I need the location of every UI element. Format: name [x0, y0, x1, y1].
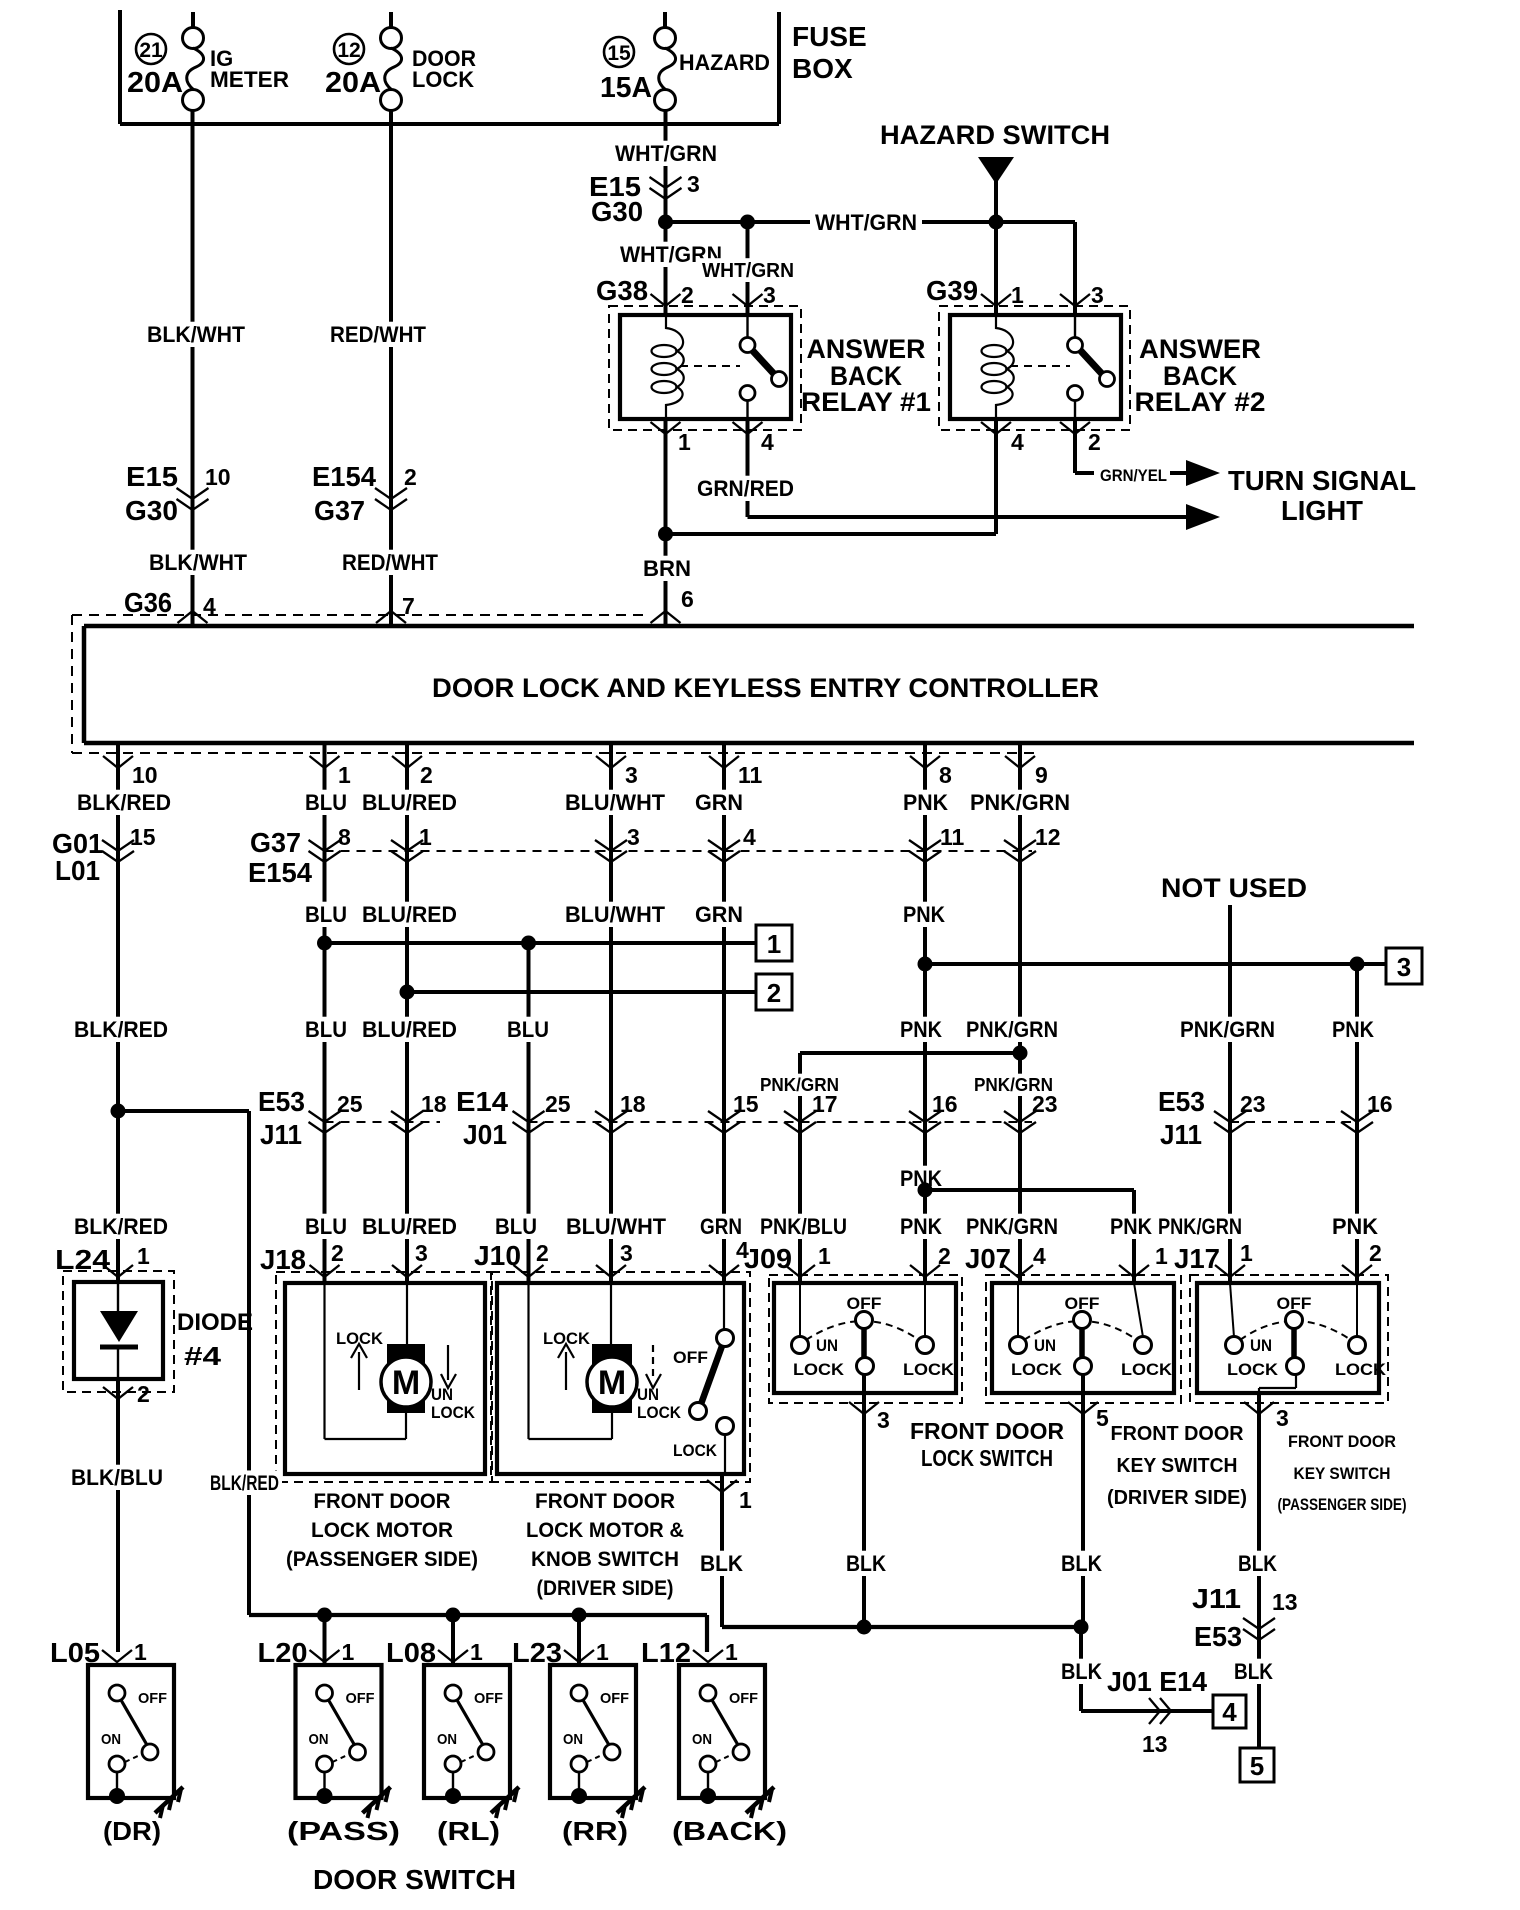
wire bus to L23	[577, 1615, 581, 1665]
svg-text:2: 2	[536, 1240, 549, 1266]
svg-text:DIODE: DIODE	[177, 1309, 253, 1336]
arrow to turn signal light 2	[1186, 504, 1220, 530]
chevron L24 pin 1	[103, 1265, 133, 1277]
svg-text:1: 1	[470, 1639, 483, 1665]
svg-text:BLK: BLK	[1061, 1551, 1102, 1576]
label GRN pin 11	[692, 790, 746, 815]
svg-text:LOCK: LOCK	[412, 67, 474, 92]
wire fuse15 stub above	[663, 12, 667, 27]
wire BLK/BLU to L05	[116, 1379, 120, 1652]
label BRN	[640, 556, 694, 581]
svg-text:20A: 20A	[127, 67, 183, 99]
wire hazard to relay2 pin1	[994, 222, 998, 315]
connector G37/E154 symbol pin 3	[595, 840, 627, 851]
svg-text:G39: G39	[926, 275, 978, 306]
wire BLK/RED branch down	[247, 1111, 251, 1615]
J07 wire pin1 in	[1134, 1283, 1143, 1337]
chevron relay1 pin 1	[651, 422, 681, 434]
offpage box 5	[1240, 1748, 1274, 1782]
svg-text:J11: J11	[260, 1119, 302, 1150]
node BRN junction	[658, 527, 673, 542]
svg-text:1: 1	[1011, 282, 1024, 308]
svg-text:25: 25	[337, 1091, 363, 1117]
connector dashed link G37 row	[325, 850, 1033, 852]
wire GRN/YEL stub to arrow	[1170, 471, 1186, 475]
diode L24 box	[74, 1282, 163, 1379]
svg-text:LIGHT: LIGHT	[1281, 495, 1363, 526]
node L20 tap	[317, 1608, 332, 1623]
label WHT/GRN below fuse	[612, 141, 720, 166]
chevron G36 pin 4	[178, 611, 208, 623]
svg-text:1: 1	[338, 762, 351, 788]
ground bus right	[722, 1625, 1081, 1629]
wire fuse21 stub above	[191, 12, 195, 28]
relay G38 common contact	[740, 338, 755, 353]
svg-text:3: 3	[1397, 952, 1411, 982]
fuse 15 circled number	[604, 37, 634, 67]
svg-text:8: 8	[338, 824, 351, 850]
svg-text:FRONT DOOR: FRONT DOOR	[1288, 1432, 1396, 1451]
node BLU/RED tap	[400, 985, 415, 1000]
label WHT/GRN relay1 pin3	[699, 258, 797, 282]
svg-text:J11: J11	[1192, 1583, 1241, 1614]
wire RED/WHT vertical	[389, 111, 393, 626]
svg-text:2: 2	[404, 464, 417, 490]
svg-text:17: 17	[812, 1091, 838, 1117]
svg-text:FUSE: FUSE	[792, 21, 867, 52]
wire WHT/GRN horizontal to hazard switch	[666, 220, 997, 224]
svg-text:3: 3	[1276, 1405, 1289, 1431]
diode L24 dashed outline	[63, 1271, 174, 1392]
label PNK above junction	[897, 1166, 945, 1191]
connector J11/E53 symbol	[1243, 1618, 1275, 1629]
svg-text:J01 E14: J01 E14	[1107, 1666, 1207, 1697]
ground bus left	[249, 1613, 707, 1617]
relay G38 lower contact	[740, 386, 755, 401]
svg-text:BLK/RED: BLK/RED	[74, 1017, 168, 1042]
label RED/WHT upper	[327, 322, 429, 347]
svg-text:OFF: OFF	[673, 1348, 708, 1367]
svg-text:M: M	[392, 1364, 420, 1402]
connector E15/G30 symbol pin 10	[177, 488, 209, 499]
node PNK tap	[918, 957, 933, 972]
svg-text:DOOR LOCK AND KEYLESS ENTRY CO: DOOR LOCK AND KEYLESS ENTRY CONTROLLER	[432, 673, 1099, 703]
relay G39 contact wires	[1074, 315, 1076, 337]
node PNK junction2	[918, 1183, 933, 1198]
svg-text:21: 21	[139, 39, 163, 62]
door switch L23	[550, 1665, 636, 1798]
node relay1 pin3 tap	[740, 215, 755, 230]
J10 exit wire	[720, 1474, 724, 1627]
svg-text:1: 1	[419, 824, 432, 850]
connector dashed link E53/J11	[325, 1121, 441, 1123]
wire PNK/GRN pin9 down	[1018, 743, 1022, 1283]
svg-text:2: 2	[767, 978, 781, 1008]
motor J18 box	[285, 1283, 485, 1474]
offpage box 3	[1386, 948, 1422, 984]
svg-text:J18: J18	[260, 1244, 306, 1275]
svg-text:BLK/WHT: BLK/WHT	[147, 322, 246, 347]
svg-text:E53: E53	[258, 1086, 305, 1117]
svg-text:J07: J07	[965, 1243, 1011, 1274]
chevron relay1 pin 4	[733, 422, 763, 434]
wire relay1 pin1 down	[664, 419, 668, 534]
svg-text:(PASS): (PASS)	[287, 1816, 400, 1846]
svg-text:2: 2	[331, 1240, 344, 1266]
svg-text:WHT/GRN: WHT/GRN	[815, 210, 917, 235]
connector G37/E154 symbol pin 12	[1004, 840, 1036, 851]
wire junction line to box1	[325, 941, 757, 945]
svg-text:BLU: BLU	[507, 1017, 549, 1042]
svg-text:5: 5	[1096, 1405, 1109, 1431]
wire not used vertical	[1228, 905, 1232, 1283]
svg-text:15: 15	[607, 42, 631, 65]
fuse 12 circled number	[334, 34, 364, 64]
svg-text:ON: ON	[101, 1731, 121, 1748]
label RED/WHT lower	[339, 550, 441, 575]
svg-text:BLU/WHT: BLU/WHT	[566, 1214, 667, 1239]
switch J17 dashed outline	[1190, 1275, 1388, 1403]
node hazard switch junction	[989, 215, 1004, 230]
chevron J09 pin 3	[849, 1402, 879, 1414]
svg-text:2: 2	[1088, 429, 1101, 455]
J10 knob top contact	[717, 1330, 734, 1347]
label BLK/RED pin 10	[74, 790, 174, 815]
label BLK J10	[697, 1551, 746, 1576]
svg-text:3: 3	[763, 282, 776, 308]
svg-text:18: 18	[620, 1091, 646, 1117]
svg-text:1: 1	[739, 1487, 752, 1513]
svg-text:E53: E53	[1158, 1086, 1205, 1117]
connector G37/E154 symbol pin 11	[909, 840, 941, 851]
svg-text:LOCK MOTOR &: LOCK MOTOR &	[526, 1519, 684, 1542]
connector E53/J11 right pin 23	[1214, 1111, 1246, 1122]
connector G37/E154 symbol pin 4	[708, 840, 740, 851]
svg-text:BLU/WHT: BLU/WHT	[565, 902, 666, 927]
wire hazard to relay2 pin3	[996, 220, 1075, 224]
svg-text:ANSWER: ANSWER	[1139, 334, 1261, 364]
svg-text:BLU: BLU	[305, 902, 347, 927]
chevron J10 pin 2	[514, 1265, 544, 1277]
motor J10 box	[497, 1283, 744, 1474]
fuse F15 symbol	[655, 28, 676, 49]
wire PNK junction to J09 pin2	[923, 1190, 927, 1283]
svg-text:OFF: OFF	[474, 1690, 503, 1707]
chevron J07 pin 5	[1068, 1402, 1098, 1414]
wire relay1 pin3 drop	[746, 222, 750, 315]
label BLK J09	[843, 1551, 889, 1576]
svg-text:6: 6	[681, 586, 694, 612]
svg-text:BLU/RED: BLU/RED	[362, 1214, 457, 1239]
svg-text:OFF: OFF	[138, 1690, 167, 1707]
diode L24 symbol	[100, 1311, 138, 1342]
wire PNK pin8 down	[923, 743, 927, 1190]
label BLK/WHT upper	[144, 322, 248, 347]
wire junction line to box2	[407, 990, 756, 994]
diode L24 wire in	[117, 1283, 119, 1311]
svg-text:16: 16	[932, 1091, 958, 1117]
svg-text:NOT USED: NOT USED	[1161, 873, 1307, 903]
wire PNK branch down to J07	[1132, 1190, 1136, 1283]
controller pin 1 exit chevron	[310, 756, 340, 768]
connector J01/E14 symbol	[1149, 1698, 1160, 1724]
J10 motor	[592, 1344, 632, 1413]
controller pin 2 exit chevron	[392, 756, 422, 768]
svg-text:G37: G37	[250, 827, 301, 858]
door switch L05	[88, 1665, 174, 1798]
svg-text:LOCK: LOCK	[903, 1360, 955, 1379]
label BLK/BLU	[68, 1465, 166, 1490]
wire BLK to box4	[1081, 1709, 1213, 1713]
svg-text:G38: G38	[596, 275, 648, 306]
svg-text:1: 1	[342, 1639, 355, 1665]
connector E14/J01 pin 17	[784, 1111, 816, 1122]
wire BLK J07 branch down	[1079, 1627, 1083, 1711]
svg-text:1: 1	[767, 929, 781, 959]
chevron J18 pin 2	[310, 1265, 340, 1277]
wire BLK/RED pin10 to L24	[116, 743, 120, 1283]
wire PNK/GRN branch down	[798, 1053, 802, 1283]
svg-text:23: 23	[1032, 1091, 1058, 1117]
svg-text:BLU: BLU	[305, 790, 347, 815]
svg-text:UN: UN	[1250, 1336, 1272, 1355]
svg-text:BLK/RED: BLK/RED	[74, 1214, 168, 1239]
svg-text:PNK: PNK	[900, 1017, 942, 1042]
svg-text:RELAY #2: RELAY #2	[1135, 387, 1266, 417]
svg-text:BLK/BLU: BLK/BLU	[71, 1465, 163, 1490]
svg-text:2: 2	[137, 1381, 150, 1407]
door switch L20	[296, 1665, 382, 1798]
svg-text:J17: J17	[1174, 1243, 1220, 1274]
label PNK/GRN row3	[963, 1017, 1061, 1042]
controller box	[84, 624, 1414, 629]
chevron relay2 pin 1	[981, 294, 1011, 306]
J07 exit wire	[1081, 1374, 1085, 1627]
node J07 exit tap	[1074, 1620, 1089, 1635]
J10 wire pin3 to motor	[610, 1283, 612, 1344]
svg-text:1: 1	[1240, 1240, 1253, 1266]
label PNK/GRN row4 right	[1155, 1214, 1245, 1239]
fuse F21 symbol	[183, 28, 204, 49]
switch J17 box	[1197, 1283, 1379, 1393]
svg-text:LOCK: LOCK	[1335, 1360, 1387, 1379]
label BLK above box5	[1231, 1659, 1276, 1684]
J17 wire pin2 in	[1356, 1283, 1358, 1337]
relay G38 switch arm	[752, 350, 775, 375]
svg-text:3: 3	[877, 1407, 890, 1433]
wire PNK/GRN branch left	[800, 1051, 1020, 1055]
svg-text:BLU: BLU	[305, 1017, 347, 1042]
svg-text:20A: 20A	[325, 67, 381, 99]
svg-text:ON: ON	[563, 1731, 583, 1748]
J07 wire pin4 in	[1017, 1283, 1019, 1337]
svg-text:4: 4	[761, 429, 774, 455]
svg-text:1: 1	[134, 1639, 147, 1665]
svg-text:UN: UN	[816, 1336, 838, 1355]
wire junction line to box3	[925, 962, 1386, 966]
hazard switch symbol	[978, 157, 1014, 184]
label BLU/WHT row4	[563, 1214, 669, 1239]
svg-text:ON: ON	[437, 1731, 457, 1748]
svg-text:BLK: BLK	[1234, 1659, 1273, 1684]
controller dashed harness top	[72, 614, 648, 616]
wire BLU/RED pin2 down	[405, 743, 409, 1283]
svg-text:UN: UN	[431, 1385, 453, 1404]
svg-text:PNK/GRN: PNK/GRN	[1158, 1214, 1242, 1239]
J17 exit jog	[1295, 1374, 1297, 1388]
label BLK/RED branch	[207, 1470, 282, 1495]
arrow to turn signal light 1	[1186, 460, 1220, 486]
chevron J18 pin 3	[392, 1265, 422, 1277]
J18 wire pin2 to motor	[323, 1283, 325, 1439]
svg-text:KEY SWITCH: KEY SWITCH	[1117, 1455, 1238, 1477]
svg-text:BLK: BLK	[1061, 1659, 1102, 1684]
svg-text:LOCK: LOCK	[1011, 1360, 1063, 1379]
svg-text:LOCK: LOCK	[793, 1360, 845, 1379]
relay G39 arm end contact	[1100, 372, 1115, 387]
svg-text:12: 12	[337, 39, 360, 62]
motor J18 dashed outline	[276, 1272, 492, 1482]
connector E14/J01 pin 16	[909, 1111, 941, 1122]
label BLU/WHT row2	[562, 902, 668, 927]
wire relay2 pin4 down	[994, 419, 998, 534]
svg-text:PNK: PNK	[1110, 1214, 1152, 1239]
relay G39 common contact	[1068, 338, 1083, 353]
svg-text:3: 3	[1091, 282, 1104, 308]
label BLU row2	[302, 902, 350, 927]
chevron L12 pin 1	[693, 1650, 723, 1662]
wire BLK/WHT vertical	[191, 111, 195, 626]
svg-text:BLK/RED: BLK/RED	[77, 790, 171, 815]
svg-text:ANSWER: ANSWER	[807, 334, 926, 364]
node L08 tap	[446, 1608, 461, 1623]
svg-text:9: 9	[1035, 762, 1048, 788]
switch J07 dashed outline	[986, 1275, 1181, 1403]
svg-text:13: 13	[1272, 1589, 1298, 1615]
chevron J10 pin 3	[596, 1265, 626, 1277]
svg-text:LOCK SWITCH: LOCK SWITCH	[921, 1445, 1053, 1471]
offpage box 4	[1213, 1695, 1246, 1728]
J10 knob switch arm	[701, 1346, 722, 1404]
svg-text:J11: J11	[1160, 1119, 1202, 1150]
svg-text:(RL): (RL)	[437, 1816, 500, 1846]
offpage box 1	[756, 925, 792, 961]
svg-text:WHT/GRN: WHT/GRN	[615, 141, 717, 166]
connector E53/J11 pin 25	[309, 1111, 341, 1122]
label PNK row3 right	[1329, 1017, 1377, 1042]
chevron J09 pin 2	[910, 1265, 940, 1277]
wire bus to L08	[451, 1615, 455, 1665]
svg-text:RELAY #1: RELAY #1	[801, 387, 931, 417]
connector E154/G37 symbol pin 2	[375, 488, 407, 499]
svg-text:PNK/GRN: PNK/GRN	[966, 1214, 1058, 1239]
svg-text:1: 1	[596, 1639, 609, 1665]
motor J10 dashed outline	[491, 1272, 750, 1482]
svg-text:BLU/RED: BLU/RED	[362, 902, 457, 927]
J17 wire pin1 in	[1230, 1283, 1234, 1337]
wire bus corner to L12	[705, 1615, 709, 1652]
label WHT/GRN on line	[810, 206, 922, 234]
svg-text:OFF: OFF	[346, 1690, 375, 1707]
svg-text:FRONT DOOR: FRONT DOOR	[535, 1490, 675, 1513]
wire bus to L20	[323, 1615, 327, 1665]
chevron L05 pin 1	[102, 1650, 132, 1662]
svg-text:1: 1	[678, 429, 691, 455]
svg-text:2: 2	[420, 762, 433, 788]
svg-text:BLK: BLK	[700, 1551, 743, 1576]
node BLK/RED junction	[111, 1104, 126, 1119]
svg-text:BLU/WHT: BLU/WHT	[565, 790, 666, 815]
wire WHT/GRN from fuse	[664, 111, 668, 222]
svg-text:ON: ON	[309, 1731, 329, 1748]
fuse F12 symbol	[381, 28, 402, 49]
connector dashed link E53/J11 right	[1230, 1121, 1357, 1123]
chevron J17 pin 3	[1244, 1402, 1274, 1414]
svg-text:BLK: BLK	[1238, 1551, 1277, 1576]
node hazard feed junction	[658, 215, 673, 230]
svg-text:LOCK: LOCK	[637, 1403, 682, 1422]
label BLU/RED pin 2	[359, 790, 460, 815]
svg-text:FRONT DOOR: FRONT DOOR	[314, 1490, 451, 1513]
J10 knob lower contact	[717, 1418, 734, 1435]
J10 knob wire pin4	[723, 1283, 725, 1330]
svg-text:TURN SIGNAL: TURN SIGNAL	[1228, 465, 1416, 496]
controller pin 9 exit chevron	[1005, 756, 1035, 768]
svg-text:HAZARD SWITCH: HAZARD SWITCH	[880, 120, 1110, 150]
svg-text:3: 3	[415, 1240, 428, 1266]
connector G01/L01 symbol	[102, 840, 134, 851]
svg-text:3: 3	[627, 824, 640, 850]
svg-text:J01: J01	[463, 1119, 507, 1150]
label GRN row4	[697, 1214, 745, 1239]
switch J07 box	[992, 1283, 1174, 1393]
connector E14/J01 pin 23	[1004, 1111, 1036, 1122]
label BLK above box4	[1058, 1659, 1105, 1684]
relay G38 coil	[666, 315, 684, 419]
chevron L08 pin 1	[438, 1650, 468, 1662]
J18 wire pin3 to motor	[406, 1283, 408, 1344]
svg-text:OFF: OFF	[729, 1690, 758, 1707]
fuse 21 circled number	[136, 34, 166, 64]
svg-text:OFF: OFF	[600, 1690, 629, 1707]
svg-text:10: 10	[205, 464, 231, 490]
svg-text:10: 10	[132, 762, 158, 788]
svg-text:PNK/GRN: PNK/GRN	[966, 1017, 1058, 1042]
svg-text:2: 2	[681, 282, 694, 308]
svg-text:5: 5	[1250, 1751, 1264, 1781]
J10 unlock arrow down	[652, 1345, 654, 1380]
chevron relay1 pin 3	[733, 294, 763, 306]
svg-text:UN: UN	[637, 1385, 659, 1404]
label BLK J17	[1235, 1551, 1280, 1576]
J09 wire pin2 in	[924, 1283, 926, 1337]
svg-text:E154: E154	[312, 461, 376, 492]
svg-text:LOCK: LOCK	[673, 1441, 718, 1460]
svg-text:L01: L01	[55, 855, 100, 886]
svg-text:3: 3	[620, 1240, 633, 1266]
chevron controller pin 6	[651, 611, 681, 623]
connector dashed link E14/J01	[529, 1121, 1033, 1123]
chevron L23 pin 1	[564, 1650, 594, 1662]
connector G37/E154 symbol pin 1	[391, 840, 423, 851]
connector E15/G30 symbol pin 3	[650, 177, 682, 188]
node J09 exit tap	[857, 1620, 872, 1635]
svg-text:LOCK: LOCK	[1227, 1360, 1279, 1379]
connector G37/E154 symbol pin 8	[309, 840, 341, 851]
label WHT/GRN relay1 pin2	[617, 242, 725, 267]
label PNK row2	[900, 902, 948, 927]
chevron J10 pin 1	[707, 1480, 737, 1492]
